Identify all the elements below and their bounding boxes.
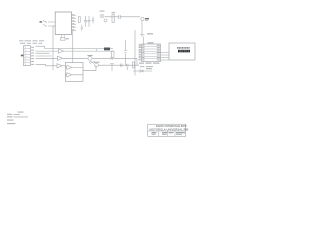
resistor R2	[112, 51, 115, 58]
transistor Q1	[100, 14, 104, 18]
wire row A	[36, 46, 105, 48]
op-amp A1B	[67, 73, 72, 77]
resistor R4	[92, 17, 94, 24]
reference designator J2	[148, 42, 154, 43]
wire stubs from J1	[36, 53, 52, 56]
resistor R5	[133, 62, 135, 68]
capacitor C8	[127, 64, 129, 70]
wire	[136, 58, 138, 65]
varistor VR1	[43, 21, 47, 27]
capacitor C7	[121, 64, 123, 67]
capacitor C5	[111, 57, 113, 60]
wire	[125, 40, 127, 65]
U1 right pin stubs	[72, 16, 77, 31]
resistor R6	[78, 17, 80, 23]
capacitor C9	[124, 51, 127, 53]
resistor R1	[112, 15, 114, 23]
buffer U2B	[58, 56, 63, 60]
connector P1	[141, 17, 144, 20]
net label MIC	[104, 48, 110, 51]
note text under J2	[139, 63, 160, 64]
header note text	[19, 40, 44, 43]
J2 pin labels	[142, 45, 160, 61]
legend notes	[7, 112, 28, 125]
diode D1	[133, 70, 152, 72]
transistor Q3	[88, 56, 92, 60]
J1 pin labels	[31, 47, 34, 65]
crystal Y1	[61, 38, 66, 40]
IC U1	[55, 12, 71, 35]
svg-text:RADIO INTERFACE BOX: RADIO INTERFACE BOX	[156, 124, 187, 128]
wire	[98, 64, 139, 66]
wire	[83, 65, 96, 71]
wire	[72, 31, 74, 71]
connector J1	[24, 46, 31, 66]
capacitor C1	[84, 16, 87, 27]
transistor Q4	[95, 63, 99, 67]
title block	[148, 124, 186, 136]
capacitor C2	[88, 16, 91, 27]
svg-text:MOTOROLA UNIVERSAL RIB: MOTOROLA UNIVERSAL RIB	[150, 127, 189, 131]
connector J2	[142, 44, 161, 62]
buffer U2A	[59, 49, 64, 53]
wire	[143, 37, 145, 44]
polarized capacitor C4	[140, 33, 145, 36]
op-amp A1A	[67, 65, 72, 69]
wire	[140, 17, 142, 33]
reference designator J1	[21, 55, 24, 57]
net label	[40, 21, 43, 22]
capacitor C6	[110, 63, 114, 71]
amplifier module A1	[65, 63, 83, 82]
marks	[90, 61, 92, 63]
capacitor C10	[81, 25, 83, 32]
capacitor C3	[119, 15, 120, 19]
GP2000 text	[178, 50, 190, 53]
U1 left pin wires	[48, 22, 55, 26]
wire	[53, 26, 55, 70]
buffer U2C	[57, 64, 62, 68]
wire	[92, 57, 137, 59]
wire	[105, 16, 141, 18]
transistor Q2	[104, 19, 107, 22]
MOTOROLA text	[177, 47, 190, 49]
wire	[134, 30, 136, 76]
logo box	[169, 43, 195, 60]
